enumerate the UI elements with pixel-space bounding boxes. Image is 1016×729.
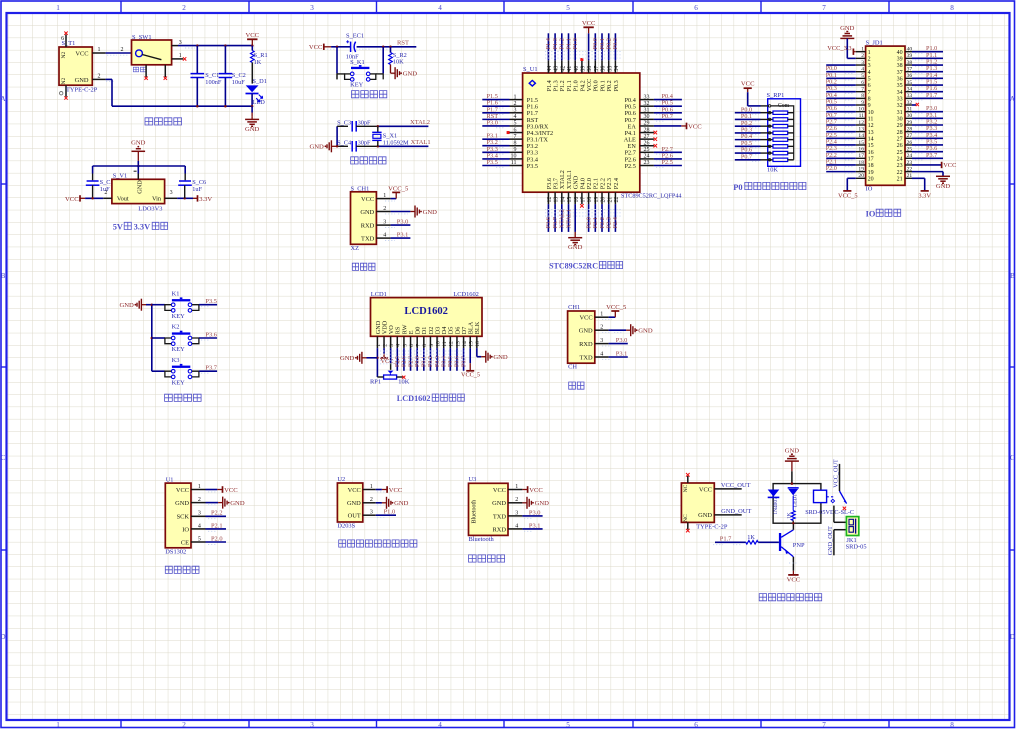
3.3V power port right xyxy=(193,197,198,199)
potentiometer RP1 wiper arrow xyxy=(388,371,394,374)
svg-text:26: 26 xyxy=(897,143,903,149)
svg-text:9: 9 xyxy=(868,103,871,109)
svg-text:4: 4 xyxy=(198,523,201,529)
LCD pin 3 VO xyxy=(388,325,395,370)
transistor PNP base bar xyxy=(779,533,781,551)
S_T1 bottom-left circle mark xyxy=(60,92,63,95)
svg-text:1uF: 1uF xyxy=(192,186,202,193)
JD1 pin 11 xyxy=(826,112,874,123)
VCC power port xyxy=(522,489,527,491)
svg-text:GND: GND xyxy=(535,500,550,507)
CH1 pin 2 xyxy=(595,329,609,331)
svg-text:4: 4 xyxy=(438,721,442,729)
wire XTAL2 xyxy=(378,125,429,127)
RP1 resistor 8 row P0.7 xyxy=(735,153,794,161)
svg-text:VCC: VCC xyxy=(579,315,592,322)
U1 pin 1 line xyxy=(191,489,206,491)
svg-text:19: 19 xyxy=(594,197,600,203)
svg-text:VCC: VCC xyxy=(389,487,403,494)
svg-text:STC89C52RC_LQFP44: STC89C52RC_LQFP44 xyxy=(621,193,682,200)
JD1 pin 2 xyxy=(856,53,871,62)
svg-text:9: 9 xyxy=(514,147,517,153)
svg-text:25: 25 xyxy=(897,150,903,156)
junction C5 bottom xyxy=(91,197,94,200)
U1 pin 12 P3.6 xyxy=(545,178,553,232)
svg-text:VCC_5: VCC_5 xyxy=(838,192,858,199)
svg-text:KEY: KEY xyxy=(172,346,186,353)
svg-text:VCC: VCC xyxy=(943,162,956,169)
svg-text:Bluetooth: Bluetooth xyxy=(472,500,478,524)
svg-text:P3.0: P3.0 xyxy=(397,219,409,226)
LED S_D1 triangle xyxy=(246,85,259,92)
svg-text:GND: GND xyxy=(493,354,508,361)
S_T1 pin 2 line xyxy=(92,78,105,80)
svg-text:12: 12 xyxy=(868,123,874,129)
VCC power port top xyxy=(251,39,253,45)
U1 pin 6 P4.3/INT2 xyxy=(507,127,553,137)
JD1 pin 16 xyxy=(826,145,874,156)
svg-text:GND_OUT: GND_OUT xyxy=(827,526,834,555)
svg-text:10K: 10K xyxy=(393,58,404,65)
svg-text:NC: NC xyxy=(683,514,689,522)
svg-text:BLK: BLK xyxy=(474,321,481,334)
svg-text:P3.1: P3.1 xyxy=(616,351,628,358)
svg-text:28: 28 xyxy=(907,126,913,132)
svg-text:14: 14 xyxy=(868,137,874,143)
svg-text:GND: GND xyxy=(175,500,189,507)
U1 pin 24 P2.6 xyxy=(625,152,682,163)
svg-text:3.3V: 3.3V xyxy=(918,192,931,199)
junction at C2 top xyxy=(224,44,227,47)
svg-text:VCC_5: VCC_5 xyxy=(388,185,409,192)
svg-text:9: 9 xyxy=(429,344,435,347)
svg-text:VCC: VCC xyxy=(741,80,755,87)
JD1 pin 10 xyxy=(826,105,874,116)
svg-text:S_C4: S_C4 xyxy=(337,140,352,147)
LED bottom lead xyxy=(251,94,253,107)
U1 pin 39 P4.2 xyxy=(579,58,586,92)
svg-text:GND: GND xyxy=(785,448,800,455)
svg-text:7: 7 xyxy=(822,4,826,12)
svg-text:6: 6 xyxy=(868,83,871,89)
U2 pin 3 line xyxy=(363,514,376,516)
wire pin3 P2.2 xyxy=(206,515,227,517)
svg-text:8: 8 xyxy=(514,140,517,146)
push button K2 xyxy=(152,324,217,354)
push button S_K1 actuator bar xyxy=(351,67,369,69)
svg-text:5: 5 xyxy=(566,721,570,729)
svg-text:KEY: KEY xyxy=(172,313,186,320)
svg-text:VCC: VCC xyxy=(493,487,506,494)
svg-text:B: B xyxy=(1010,272,1015,280)
svg-text:SCK: SCK xyxy=(177,514,190,521)
svg-text:12: 12 xyxy=(858,120,864,126)
wire JK1 pin2 to GND_OUT xyxy=(834,529,847,531)
U1 pin 14 XTAL2 xyxy=(559,170,567,232)
right vertical to key xyxy=(382,47,384,74)
LCD pin 13 D6 xyxy=(454,327,461,371)
RP1 resistor 4 row P0.3 xyxy=(735,126,794,134)
RP1 right bus xyxy=(771,106,794,160)
U1 pin 28 P4.1 xyxy=(625,127,657,137)
LCD1602 body xyxy=(371,298,483,337)
T2 bottom pin (NC) xyxy=(687,522,689,529)
GND power port above relay xyxy=(791,460,793,462)
svg-text:22: 22 xyxy=(907,166,913,172)
svg-text:40: 40 xyxy=(897,50,903,56)
svg-text:1: 1 xyxy=(376,344,382,347)
capacitor S_C4 plates xyxy=(351,141,353,152)
svg-text:16: 16 xyxy=(574,197,580,203)
push button S_K1 left bracket xyxy=(345,74,351,80)
svg-text:P2.5: P2.5 xyxy=(662,159,673,166)
svg-text:8: 8 xyxy=(950,721,954,729)
U1 pin 2 line xyxy=(191,502,206,504)
svg-text:1: 1 xyxy=(56,4,60,12)
junction LED bottom xyxy=(251,105,254,108)
svg-text:14: 14 xyxy=(858,133,864,139)
LCD pin 9 D2 xyxy=(428,327,435,371)
wire pin2 to GND xyxy=(391,211,411,213)
svg-text:IO: IO xyxy=(866,186,873,193)
svg-text:VCC: VCC xyxy=(75,50,88,57)
JD1 pin 14 xyxy=(826,132,874,143)
capacitor S_EC1 plates xyxy=(350,42,352,52)
GND power port xyxy=(626,329,631,331)
svg-text:3: 3 xyxy=(310,4,314,12)
indicator LED1 xyxy=(788,487,799,489)
crystal S_X1 plates xyxy=(372,131,381,133)
S_T1 pin 1 line xyxy=(92,52,105,54)
caption 继电器控制电路 xyxy=(759,594,822,601)
svg-text:21: 21 xyxy=(907,173,913,179)
svg-text:39: 39 xyxy=(581,66,587,72)
JD1 pin 6 xyxy=(826,79,871,90)
relay SRD-05 outline box xyxy=(773,484,821,524)
svg-text:37: 37 xyxy=(594,66,600,72)
svg-text:P3.5: P3.5 xyxy=(527,163,538,170)
svg-text:29: 29 xyxy=(897,123,903,129)
U1 pin 4 line xyxy=(191,528,206,530)
svg-text:1K: 1K xyxy=(254,59,262,66)
svg-text:21: 21 xyxy=(607,197,613,203)
svg-text:3: 3 xyxy=(600,338,603,344)
junction C2 bottom xyxy=(224,105,227,108)
svg-text:41: 41 xyxy=(567,66,573,72)
svg-text:16: 16 xyxy=(858,146,864,152)
GND power port keys xyxy=(141,304,146,306)
svg-text:4: 4 xyxy=(861,66,864,72)
zone dividers top/bottom xyxy=(120,1,122,13)
svg-text:5: 5 xyxy=(868,77,871,83)
JD1 pin 36 xyxy=(897,72,943,83)
wire pin4 P3.1 xyxy=(609,356,628,358)
svg-text:10: 10 xyxy=(511,154,517,160)
svg-text:S_U1: S_U1 xyxy=(523,66,538,73)
svg-text:N2: N2 xyxy=(61,77,67,84)
svg-text:7: 7 xyxy=(514,134,517,140)
U1 pin 35 P0.2 xyxy=(606,33,614,91)
reset main wire right of EC1 xyxy=(357,46,417,48)
svg-text:3: 3 xyxy=(515,510,518,516)
left drop to C5 xyxy=(92,166,94,174)
wire pin3 P3.0 xyxy=(391,224,411,226)
svg-text:RXD: RXD xyxy=(361,222,375,229)
junction at VCC/R1 xyxy=(251,44,254,47)
row ticks left/right xyxy=(1,183,7,185)
svg-text:P1.7: P1.7 xyxy=(720,536,732,543)
svg-text:16: 16 xyxy=(475,341,481,347)
svg-text:P3.5: P3.5 xyxy=(487,159,498,166)
U1 pin 8 P3.2 xyxy=(482,139,538,150)
connector S_JD1 body xyxy=(866,46,905,185)
svg-text:XTAL1: XTAL1 xyxy=(565,209,572,228)
svg-text:PNP: PNP xyxy=(793,542,805,549)
svg-text:15: 15 xyxy=(858,140,864,146)
svg-text:GND: GND xyxy=(568,244,583,251)
svg-text:30: 30 xyxy=(644,114,650,120)
svg-text:2: 2 xyxy=(382,344,388,347)
svg-text:1: 1 xyxy=(383,193,386,199)
JD1 pin 7 xyxy=(826,85,871,96)
U1 pin 23 P2.5 xyxy=(625,159,682,170)
JD1 pin 33 xyxy=(897,92,943,103)
svg-text:LCD1602: LCD1602 xyxy=(453,291,479,298)
svg-text:SRD-05VDC-SL-C: SRD-05VDC-SL-C xyxy=(805,509,854,516)
JD1 pin 37 xyxy=(897,65,943,76)
svg-text:Bluetooth: Bluetooth xyxy=(469,536,495,543)
svg-text:XTAL2: XTAL2 xyxy=(410,119,430,126)
svg-text:VCC_OUT: VCC_OUT xyxy=(832,459,839,488)
GND power port bottom of LED xyxy=(251,113,253,117)
svg-text:2: 2 xyxy=(98,74,101,80)
svg-text:P3.1: P3.1 xyxy=(397,232,409,239)
U1 pin 41 P1.1 xyxy=(565,33,573,91)
wire pin3 P3.0 xyxy=(522,515,542,517)
svg-text:17: 17 xyxy=(581,197,587,203)
connector S_T1 TYPE-C-2P body xyxy=(59,47,92,85)
svg-text:S_EC1: S_EC1 xyxy=(346,32,364,39)
caption 下载口 xyxy=(352,263,375,270)
svg-text:3.3V: 3.3V xyxy=(134,222,151,231)
svg-text:8: 8 xyxy=(868,97,871,103)
svg-text:1K: 1K xyxy=(786,512,792,519)
VCC_5 power port xyxy=(395,192,397,198)
flyback diode 1N4007 xyxy=(768,490,780,497)
U1 pin 11 P3.5 xyxy=(482,159,538,170)
U1 pin 40 P1.0 xyxy=(572,33,580,91)
CH1 pin 3 xyxy=(595,343,609,345)
capacitor S_C1 bottom lead xyxy=(196,78,198,107)
U1 pin 5 line xyxy=(191,541,206,543)
svg-text:32: 32 xyxy=(897,103,903,109)
svg-text:19: 19 xyxy=(858,166,864,172)
svg-text:P2.1: P2.1 xyxy=(211,522,223,529)
svg-text:24: 24 xyxy=(897,157,903,163)
svg-text:K2: K2 xyxy=(172,324,180,331)
JD1 pin 19 xyxy=(826,165,874,176)
svg-text:A: A xyxy=(0,95,6,103)
caption 复位电路 xyxy=(352,91,387,98)
JD1 pin 23 xyxy=(897,160,957,169)
JD1 pin 26 xyxy=(897,138,943,149)
U1 pin 3 line xyxy=(191,515,206,517)
U1 pin 5 P3.0/RX xyxy=(482,119,549,130)
S_T1 bottom pin (NC) xyxy=(65,85,67,97)
svg-text:VCC: VCC xyxy=(224,487,238,494)
svg-text:C: C xyxy=(1,454,6,462)
junction relay top xyxy=(791,482,794,485)
JD1 pin 30 xyxy=(897,112,943,123)
JD1 pin 17 xyxy=(826,152,874,163)
caption 人体热释电感应模块 xyxy=(339,540,417,547)
svg-text:40: 40 xyxy=(907,47,913,53)
svg-text:20: 20 xyxy=(858,173,864,179)
push button S_K1 contacts xyxy=(350,72,354,76)
S_CH1 pin 4 xyxy=(376,237,390,239)
svg-text:GND: GND xyxy=(840,25,855,32)
svg-text:24: 24 xyxy=(644,154,650,160)
emitter wire to VCC xyxy=(792,557,794,571)
capacitor S_C2 plates xyxy=(219,73,233,75)
S_CH1 pin 1 xyxy=(376,198,390,200)
JD1 pin 1 xyxy=(827,45,870,56)
U3 pin 1 line xyxy=(508,489,522,491)
capacitor S_C1 plates xyxy=(191,73,205,75)
svg-text:CH: CH xyxy=(568,364,577,371)
svg-text:KEY: KEY xyxy=(350,82,364,89)
svg-text:15: 15 xyxy=(567,197,573,203)
svg-text:35: 35 xyxy=(607,66,613,72)
svg-text:IO: IO xyxy=(866,209,876,218)
svg-text:N2: N2 xyxy=(61,51,67,58)
svg-text:4: 4 xyxy=(383,233,386,239)
U3 pin 4 line xyxy=(508,528,522,530)
wire LED to GND xyxy=(251,106,253,112)
RP1 com pin xyxy=(761,105,768,107)
LCD pin 15 BLA xyxy=(461,321,480,378)
wire pin1 to VCC_5 xyxy=(391,198,397,200)
S_V1 pin 3 line xyxy=(165,197,178,199)
LCD pin 6 E xyxy=(408,330,415,371)
svg-text:P1.7: P1.7 xyxy=(926,92,937,99)
svg-text:3: 3 xyxy=(514,107,517,113)
right drop to C6 xyxy=(184,166,186,174)
svg-text:VCC: VCC xyxy=(361,196,374,203)
caption 晶振电路 xyxy=(351,157,386,164)
svg-text:13: 13 xyxy=(455,341,461,347)
junction K1 xyxy=(151,303,154,306)
svg-text:30: 30 xyxy=(897,117,903,123)
svg-text:A: A xyxy=(1010,95,1016,103)
caption 电源电路 xyxy=(145,118,182,125)
svg-text:1: 1 xyxy=(861,47,864,53)
capacitor S_C3 plates xyxy=(351,121,353,132)
svg-text:CH1: CH1 xyxy=(568,304,580,311)
svg-text:VCC: VCC xyxy=(688,123,702,130)
U1 pin 18 P2.0 xyxy=(585,178,593,232)
svg-text:P1.0: P1.0 xyxy=(572,38,579,49)
svg-text:10: 10 xyxy=(435,341,441,347)
U1 pin 33 P0.4 xyxy=(625,93,682,104)
JD1 pin 9 xyxy=(826,99,871,110)
U1 pin 36 P0.1 xyxy=(599,33,607,91)
RP1 resistor 5 row P0.4 xyxy=(735,133,794,141)
svg-text:39: 39 xyxy=(907,53,913,59)
svg-text:DS1302: DS1302 xyxy=(165,549,186,556)
svg-text:11: 11 xyxy=(868,117,874,123)
svg-text:1N4007: 1N4007 xyxy=(773,497,779,515)
U1 pin 10 P3.4 xyxy=(482,152,538,163)
capacitor S_C4 right lead xyxy=(356,145,378,147)
svg-text:U1: U1 xyxy=(166,476,174,483)
svg-text:34: 34 xyxy=(907,86,913,92)
svg-text:9: 9 xyxy=(861,100,864,106)
RP1 left lead xyxy=(377,376,383,378)
svg-text:GND_OUT: GND_OUT xyxy=(721,508,751,515)
U1 pin 20 P2.2 xyxy=(599,178,607,232)
GND stem to relay xyxy=(791,461,793,471)
switch bottom pin b (NC) xyxy=(164,65,166,77)
GND power port right of LCD xyxy=(481,356,486,358)
capacitor S_C4 left lead xyxy=(337,145,348,147)
svg-text:19: 19 xyxy=(868,170,874,176)
caption 时钟模块 xyxy=(165,566,199,573)
switch pin 1 line (NC) xyxy=(172,58,184,60)
svg-text:23: 23 xyxy=(907,160,913,166)
svg-text:RXD: RXD xyxy=(493,526,507,533)
switch bottom pin a (NC) xyxy=(145,65,147,77)
svg-text:5: 5 xyxy=(514,121,517,127)
svg-text:VCC: VCC xyxy=(699,486,712,493)
push button S_K1 right bracket xyxy=(370,74,376,80)
svg-text:GND: GND xyxy=(136,180,143,194)
wire VCC to RP1 com xyxy=(747,92,749,106)
svg-text:VCC_5: VCC_5 xyxy=(606,304,627,311)
chip S_U1 body xyxy=(523,73,640,192)
svg-text:P2.5: P2.5 xyxy=(625,163,636,170)
module U3 body xyxy=(469,483,509,535)
relay actuator dashed link xyxy=(827,496,835,498)
svg-text:11: 11 xyxy=(511,160,517,166)
wire pin4 P3.1 xyxy=(391,237,411,239)
JD1 pin 40 xyxy=(897,45,943,56)
wire GND to LCD pin1 xyxy=(367,357,378,359)
LED S_D1 cathode bar xyxy=(246,93,259,95)
svg-text:RST: RST xyxy=(397,39,409,46)
JK1 inner bar xyxy=(855,519,857,534)
svg-text:OUT: OUT xyxy=(348,513,361,520)
svg-text:20: 20 xyxy=(868,177,874,183)
JD1 pin 39 xyxy=(897,52,943,63)
JD1 pin 38 xyxy=(897,59,943,70)
svg-text:P0.3: P0.3 xyxy=(613,80,620,91)
svg-text:33: 33 xyxy=(644,94,650,100)
svg-text:18: 18 xyxy=(587,197,593,203)
svg-text:33: 33 xyxy=(907,93,913,99)
svg-text:GND: GND xyxy=(347,500,361,507)
U1 pin 2 P1.6 xyxy=(482,100,538,111)
push button K3 xyxy=(152,357,218,387)
left vertical to key xyxy=(336,47,338,74)
JD1 pin 4 xyxy=(826,65,871,76)
wire pin1 to VCC xyxy=(206,489,218,491)
wire pin3 to 3.3V xyxy=(177,197,193,199)
switch S_SW1 lever xyxy=(142,55,161,60)
JD1 pin 13 xyxy=(826,125,874,136)
svg-text:LCD1: LCD1 xyxy=(371,291,387,298)
svg-text:36: 36 xyxy=(907,73,913,79)
